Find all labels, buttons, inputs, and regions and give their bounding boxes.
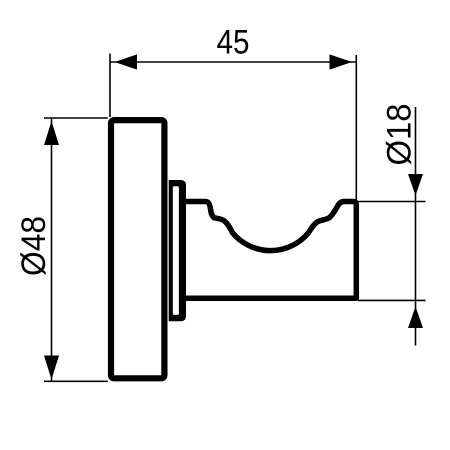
dimension 45 dimension line — [110, 61, 356, 63]
svg-text:45: 45 — [217, 23, 250, 61]
dimension Ø18 top witness line — [358, 201, 426, 203]
svg-text:Ø48: Ø48 — [15, 216, 53, 276]
dimension Ø48 bottom witness line — [44, 380, 108, 382]
collar inner white — [173, 186, 179, 315]
hook arm outline — [183, 202, 356, 299]
dimension 45 right arrowhead — [330, 54, 353, 69]
dimension 45 left arrowhead — [115, 54, 138, 69]
dimension Ø48 up arrowhead — [44, 121, 59, 145]
dimension Ø48 dimension line — [51, 118, 53, 381]
dimension Ø18 up arrowhead — [408, 307, 423, 329]
collar — [169, 180, 186, 321]
dimension Ø18 down arrowhead — [408, 174, 423, 196]
dimension Ø48 down arrowhead — [44, 356, 59, 380]
dimension Ø48 top witness line — [44, 117, 108, 119]
dimension Ø18 dimension line — [415, 107, 417, 346]
dimension 45 right extension line — [355, 55, 357, 200]
svg-text:Ø18: Ø18 — [380, 104, 418, 166]
dimension 45 left extension line — [109, 54, 111, 118]
dimension Ø18 bottom witness line — [358, 299, 426, 301]
wall plate — [111, 120, 164, 378]
